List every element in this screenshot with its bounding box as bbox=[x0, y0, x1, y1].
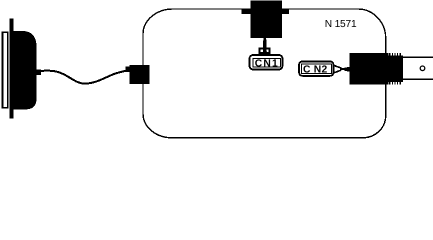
svg-text:N 1571: N 1571 bbox=[325, 19, 357, 30]
svg-text:CN1: CN1 bbox=[255, 59, 279, 70]
svg-text:CN2: CN2 bbox=[303, 64, 328, 75]
